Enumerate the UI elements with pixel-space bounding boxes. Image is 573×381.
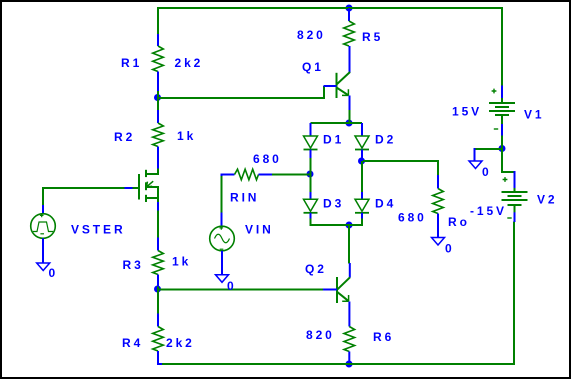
label Q1 — [302, 60, 324, 74]
wire bridge right above bottom — [361, 218, 363, 226]
svg-text:820: 820 — [297, 28, 326, 42]
diode D3 lead bottom — [310, 213, 312, 219]
svg-text:0: 0 — [227, 279, 237, 293]
wire node to R2 — [157, 97, 159, 110]
wire R1 bottom to node — [157, 91, 159, 99]
svg-text:VSTER: VSTER — [71, 223, 126, 237]
diode D1 — [304, 136, 318, 150]
svg-text:R1: R1 — [121, 56, 142, 70]
resistor R2 lead bottom — [157, 147, 159, 169]
battery V2 lead bottom — [514, 212, 516, 222]
label RIN — [230, 191, 259, 205]
label V1V2 ground 0 — [482, 165, 492, 179]
svg-text:2k2: 2k2 — [166, 336, 195, 350]
label V1 — [524, 108, 544, 122]
diode D1 lead bottom — [310, 150, 312, 159]
battery V2 tick bottom — [514, 204, 516, 212]
label R4 value 2k2 — [166, 336, 195, 350]
transistor M1 drain lead — [157, 160, 159, 169]
svg-text:2k2: 2k2 — [175, 56, 204, 70]
resistor R6 lead bottom — [348, 352, 350, 362]
wire V1 bottom to junction — [501, 135, 503, 149]
wire V1 top — [501, 7, 503, 86]
label Ro ground 0 — [445, 242, 455, 256]
wire bridge bottom to Q2 collector — [348, 224, 350, 264]
wire VSTER down — [42, 187, 44, 206]
transistor M1 source lead — [157, 202, 159, 211]
svg-text:R5: R5 — [362, 30, 383, 44]
battery V1 plates — [489, 103, 515, 115]
label VSTER ground 0 — [49, 266, 59, 280]
source VSTER circle — [31, 214, 56, 239]
resistor R6 zigzag — [344, 327, 355, 352]
node bridge bottom — [346, 222, 353, 229]
source VSTER pulse waveform — [33, 222, 53, 232]
source VIN lead top — [221, 213, 223, 227]
label V2 — [537, 193, 557, 207]
svg-text:V1: V1 — [524, 108, 544, 122]
label V1 value 15V — [452, 105, 482, 119]
source VSTER lead bottom — [42, 238, 44, 263]
resistor RIN lead left — [222, 175, 235, 177]
ground VSTER — [37, 263, 50, 271]
battery V1 minus — [494, 128, 498, 130]
label R2 — [114, 130, 135, 144]
svg-text:1k: 1k — [177, 129, 196, 143]
svg-text:680: 680 — [253, 152, 282, 166]
diode D2 — [355, 136, 369, 150]
svg-text:D1: D1 — [323, 133, 344, 147]
resistor R5 lead top — [348, 8, 350, 21]
svg-text:R4: R4 — [122, 336, 143, 350]
wire bridge bottom — [311, 224, 363, 226]
diode D1 lead top — [310, 123, 312, 137]
label VIN — [245, 223, 274, 237]
svg-text:V2: V2 — [537, 193, 557, 207]
wire bridge left upper node — [310, 157, 312, 175]
wire R3 bottom to node — [157, 287, 159, 291]
resistor R3 zigzag — [153, 251, 164, 275]
label R5 — [362, 30, 383, 44]
node V1-V2 junction — [499, 145, 506, 152]
ground Ro — [432, 238, 445, 246]
battery V2 plus — [503, 177, 508, 182]
ground V1V2 lead — [474, 148, 476, 162]
wire right branch up — [513, 222, 515, 366]
battery V2 minus — [507, 217, 511, 219]
resistor R2 lead top — [157, 110, 159, 123]
label VIN ground 0 — [227, 279, 237, 293]
label Ro value 680 — [398, 211, 427, 225]
transistor Q2 collector lead — [349, 263, 351, 278]
svg-text:R6: R6 — [373, 330, 394, 344]
battery V1 tick top — [501, 98, 503, 103]
transistor Q1 body — [337, 72, 351, 98]
svg-text:D4: D4 — [375, 197, 396, 211]
wire VSTER to gate — [42, 187, 125, 189]
label VSTER — [71, 223, 126, 237]
wire gnd V1 horizontal — [474, 148, 503, 150]
svg-text:R2: R2 — [114, 130, 135, 144]
transistor M1 gate lead — [125, 187, 133, 189]
wire mosfet source down — [157, 210, 159, 238]
wire bridge top — [311, 122, 363, 124]
wire bridge left above bottom — [310, 218, 312, 226]
label R5 value 820 — [297, 28, 326, 42]
label D2 — [375, 133, 396, 147]
label D4 — [375, 197, 396, 211]
source VSTER plus — [40, 214, 44, 218]
ground V1V2 — [469, 161, 482, 169]
transistor Q2 emitter lead — [348, 302, 350, 327]
source VSTER lead top — [42, 205, 44, 214]
battery V1 lead bottom — [501, 124, 503, 136]
battery V1 tick bottom — [501, 115, 503, 124]
svg-text:1k: 1k — [172, 255, 191, 269]
resistor R3 lead bottom — [157, 275, 159, 287]
label R6 value 820 — [306, 328, 335, 342]
battery V2 tick top — [514, 188, 516, 192]
diode D4 — [355, 199, 369, 213]
source VIN lead bottom — [221, 251, 223, 275]
resistor Ro lead top — [437, 175, 439, 189]
svg-text:D3: D3 — [323, 197, 344, 211]
wire node to R4 — [157, 289, 159, 314]
wire bottom rail — [161, 363, 515, 365]
label R3 value 1k — [172, 255, 191, 269]
label R4 — [122, 336, 143, 350]
svg-text:Ro: Ro — [448, 215, 470, 229]
diode D3 — [304, 199, 318, 213]
node R1-R2 junction — [154, 94, 161, 101]
node R3-R4 junction — [154, 286, 161, 293]
wire bridge left lower — [310, 174, 312, 192]
diode D4 lead bottom — [361, 213, 363, 219]
resistor Ro zigzag — [433, 189, 444, 214]
resistor R3 lead top — [157, 238, 159, 251]
source VIN circle — [210, 226, 235, 251]
diode D2 lead top — [361, 123, 363, 137]
source VIN minus — [220, 248, 224, 250]
resistor R2 zigzag — [153, 123, 164, 146]
transistor Q2 body — [337, 277, 350, 303]
diode D3 lead top — [310, 192, 312, 200]
svg-text:Q1: Q1 — [302, 60, 324, 74]
wire V2 top to V1 junction — [502, 149, 515, 173]
wire node to Q1 base horizontal — [157, 97, 325, 99]
resistor R4 lead top — [157, 314, 159, 327]
resistor R5 lead bottom / Q1 collector lead — [349, 46, 351, 73]
resistor R5 zigzag — [344, 21, 355, 46]
wire RIN to bridge — [272, 174, 311, 176]
svg-text:820: 820 — [306, 328, 335, 342]
node R6 bottom — [346, 361, 353, 368]
node bridge right mid — [358, 158, 365, 165]
svg-text:VIN: VIN — [245, 223, 274, 237]
node top R5/V1 junction — [346, 5, 353, 12]
label R6 — [373, 330, 394, 344]
resistor Ro lead bottom — [437, 214, 439, 239]
battery V1 plus — [492, 89, 497, 94]
battery V2 plates — [502, 192, 528, 205]
diode D2 lead bottom — [361, 150, 363, 162]
svg-text:0: 0 — [445, 242, 455, 256]
svg-text:Q2: Q2 — [305, 262, 327, 276]
label RIN value 680 — [253, 152, 282, 166]
transistor M1 mosfet body — [132, 168, 159, 202]
diode D4 lead top — [361, 192, 363, 200]
wire Q1 base vertical jog — [323, 86, 325, 99]
transistor Q1 emitter lead — [349, 96, 351, 111]
resistor RIN zigzag — [235, 169, 259, 180]
svg-text:0: 0 — [482, 165, 492, 179]
battery V2 lead top — [514, 171, 516, 189]
ground VIN — [216, 275, 229, 283]
wire Q1 emitter to bridge top — [349, 110, 351, 125]
label R2 value 1k — [177, 129, 196, 143]
source VIN sine waveform — [215, 234, 230, 243]
wire bridge right below node — [361, 161, 363, 192]
wire output node to Ro — [362, 161, 439, 176]
label D3 — [323, 197, 344, 211]
battery V1 lead top — [501, 86, 503, 99]
label D1 — [323, 133, 344, 147]
label R1 value 2k2 — [175, 56, 204, 70]
wire left branch top — [157, 7, 159, 34]
resistor R1 zigzag — [153, 46, 164, 71]
transistor Q2 base lead — [323, 289, 337, 291]
svg-text:0: 0 — [49, 266, 59, 280]
source VIN plus — [220, 226, 224, 230]
source VSTER minus — [40, 233, 44, 235]
svg-text:680: 680 — [398, 211, 427, 225]
transistor Q1 base lead — [324, 85, 337, 87]
wire VIN up to RIN — [221, 175, 223, 213]
resistor R4 zigzag — [153, 327, 164, 351]
wire top rail — [157, 7, 503, 9]
svg-text:R3: R3 — [123, 258, 144, 272]
label Ro — [448, 215, 470, 229]
svg-text:-15V: -15V — [470, 204, 507, 218]
label V2 value -15V — [470, 204, 507, 218]
resistor RIN lead right — [259, 174, 273, 176]
resistor R1 lead top — [157, 34, 159, 46]
node bridge left mid — [307, 171, 314, 178]
wire node to Q2 base — [157, 289, 323, 291]
svg-text:15V: 15V — [452, 105, 482, 119]
resistor R4 lead bottom — [158, 351, 162, 364]
resistor R1 lead bottom — [157, 72, 159, 92]
label R3 — [123, 258, 144, 272]
label R1 — [121, 56, 142, 70]
label Q2 — [305, 262, 327, 276]
svg-text:RIN: RIN — [230, 191, 259, 205]
node bridge top — [346, 120, 353, 127]
svg-text:D2: D2 — [375, 133, 396, 147]
